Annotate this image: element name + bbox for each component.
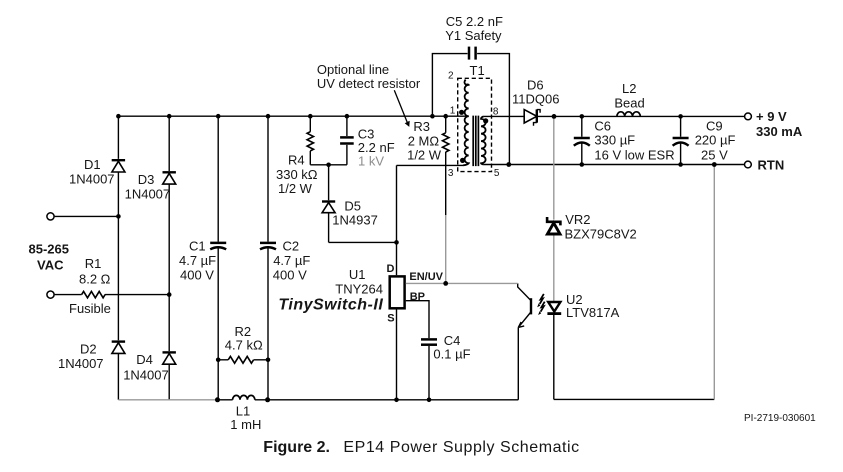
capacitor C3 xyxy=(340,137,354,143)
svg-text:1/2 W: 1/2 W xyxy=(278,181,313,196)
label D3 xyxy=(125,172,171,202)
svg-text:U1: U1 xyxy=(349,267,366,282)
svg-text:TinySwitch-II: TinySwitch-II xyxy=(278,297,383,314)
svg-text:TNY264: TNY264 xyxy=(335,282,383,297)
svg-text:VAC: VAC xyxy=(37,258,64,273)
diode D1 xyxy=(112,160,125,172)
wire U2 LED cathode to bottom xyxy=(553,314,555,399)
label C3 xyxy=(358,127,395,169)
svg-text:4.7 µF: 4.7 µF xyxy=(179,253,216,268)
svg-text:D6: D6 xyxy=(527,78,544,93)
diode D5 xyxy=(322,202,335,213)
diode D4 xyxy=(163,352,176,364)
svg-text:PI-2719-030601: PI-2719-030601 xyxy=(744,413,816,424)
svg-text:C2: C2 xyxy=(283,239,300,254)
transformer T1 core xyxy=(473,116,478,167)
wire C6 branch xyxy=(581,116,583,164)
wire C5 right leg xyxy=(477,54,509,165)
wire AC line 2 xyxy=(55,294,170,296)
capacitor C1 xyxy=(210,243,226,249)
svg-text:1N4007: 1N4007 xyxy=(58,356,104,371)
wire primary return pin 3 xyxy=(397,164,464,166)
wire drain xyxy=(396,165,398,275)
svg-text:D5: D5 xyxy=(344,199,361,214)
svg-text:330 mA: 330 mA xyxy=(756,124,803,139)
svg-text:R1: R1 xyxy=(85,256,102,271)
svg-text:3: 3 xyxy=(448,168,454,179)
svg-text:VR2: VR2 xyxy=(565,212,590,227)
label C2 xyxy=(273,239,311,283)
zener diode VR2 xyxy=(547,217,560,234)
svg-text:16 V low ESR: 16 V low ESR xyxy=(594,148,674,163)
svg-text:RTN: RTN xyxy=(758,158,785,173)
resistor R3 xyxy=(443,133,449,152)
label R2 xyxy=(225,324,263,353)
terminal AC input bottom xyxy=(47,291,54,298)
optocoupler U2 LED xyxy=(547,302,561,314)
terminal AC input top xyxy=(47,213,54,220)
wire C3 branch xyxy=(346,116,348,165)
svg-text:220 µF: 220 µF xyxy=(695,133,736,148)
wire S pin xyxy=(396,310,398,400)
wire R4 branch xyxy=(309,116,311,165)
svg-text:85-265: 85-265 xyxy=(29,242,69,257)
svg-text:C6: C6 xyxy=(594,119,611,134)
wire EN/UV gray xyxy=(406,282,518,284)
resistor R1 xyxy=(82,291,106,297)
svg-text:BZX79C8V2: BZX79C8V2 xyxy=(565,227,637,242)
capacitor C2 xyxy=(260,243,276,249)
wire bottom rail xyxy=(218,327,519,399)
wire bridge right vertical xyxy=(168,116,170,400)
svg-text:0.1 µF: 0.1 µF xyxy=(433,347,470,362)
svg-text:2: 2 xyxy=(448,71,454,82)
svg-text:2 MΩ: 2 MΩ xyxy=(408,134,440,149)
wire C9 branch xyxy=(680,116,682,164)
wire bottom rail gray segment xyxy=(118,399,217,401)
diode D3 xyxy=(163,172,176,184)
junction dot AC1 xyxy=(116,214,121,219)
wire R3 branch xyxy=(445,116,447,215)
svg-text:D3: D3 xyxy=(138,172,155,187)
label D6 xyxy=(512,78,559,107)
capacitor C6 xyxy=(574,138,590,146)
wire R3 lower gray xyxy=(445,215,447,283)
inductor L1 xyxy=(233,395,255,399)
junction dots R2 xyxy=(216,358,270,363)
wire top DC bus xyxy=(118,115,468,117)
svg-text:1: 1 xyxy=(450,106,456,117)
wire VR2 branch gray vertical xyxy=(553,116,555,301)
label 85-265 VAC xyxy=(29,242,69,273)
wire feedback bottom xyxy=(554,398,715,400)
svg-text:D1: D1 xyxy=(84,157,101,172)
wire C4 bottom xyxy=(428,346,430,400)
svg-text:11DQ06: 11DQ06 xyxy=(512,92,559,107)
svg-text:1N4007: 1N4007 xyxy=(123,368,169,383)
label D5 xyxy=(332,199,378,228)
wire D5 to drain xyxy=(329,241,397,243)
svg-text:1 kV: 1 kV xyxy=(358,154,384,169)
transformer T1 primary winding xyxy=(463,80,469,166)
label R3 xyxy=(407,119,442,163)
inductor L2 xyxy=(617,112,640,117)
wire RTN rail xyxy=(484,164,745,166)
svg-text:5: 5 xyxy=(494,168,500,179)
svg-text:C9: C9 xyxy=(706,119,723,134)
annotation arrow optional UV resistor xyxy=(394,90,409,127)
svg-text:Fusible: Fusible xyxy=(69,301,111,316)
label C9 xyxy=(695,119,736,163)
optocoupler U2 phototransistor xyxy=(518,283,531,327)
label R4 xyxy=(276,153,318,197)
IC U1 TNY264 box xyxy=(390,276,405,308)
transformer polarity dot primary bottom xyxy=(460,158,465,163)
svg-text:400 V: 400 V xyxy=(180,268,214,283)
resistor R2 xyxy=(218,356,268,363)
wire C5 left leg xyxy=(432,54,467,117)
label U2 xyxy=(566,292,620,320)
label L1 xyxy=(230,404,261,433)
junction dots top bus xyxy=(116,114,448,119)
label D2 xyxy=(58,342,104,372)
svg-text:Y1 Safety: Y1 Safety xyxy=(445,28,502,43)
wire feedback right gray xyxy=(713,165,715,400)
junction dots RTN rail xyxy=(506,162,716,167)
svg-text:1/2 W: 1/2 W xyxy=(407,148,442,163)
transformer polarity dot secondary xyxy=(483,118,488,123)
svg-text:1 mH: 1 mH xyxy=(230,417,261,432)
wire C1 branch xyxy=(217,116,219,400)
svg-text:C1: C1 xyxy=(189,239,206,254)
junction dots S and C4 on bottom rail xyxy=(394,398,431,403)
svg-text:Optional line: Optional line xyxy=(317,62,389,77)
capacitor C4 xyxy=(421,339,437,344)
label D1 xyxy=(69,157,115,187)
label +9V output xyxy=(756,109,803,139)
svg-text:S: S xyxy=(387,313,394,325)
svg-text:LTV817A: LTV817A xyxy=(566,305,620,320)
svg-text:EN/UV: EN/UV xyxy=(409,271,443,283)
terminal +9V output xyxy=(745,113,752,120)
svg-text:400 V: 400 V xyxy=(273,268,307,283)
terminal RTN output xyxy=(745,161,752,168)
junction dots +9V rail xyxy=(552,114,683,119)
svg-text:330 kΩ: 330 kΩ xyxy=(276,167,318,182)
label C1 xyxy=(179,239,216,283)
junction dot drain xyxy=(394,240,399,245)
svg-text:8.2 Ω: 8.2 Ω xyxy=(79,272,111,287)
svg-text:1N4007: 1N4007 xyxy=(125,187,171,202)
label U1 xyxy=(335,267,383,297)
capacitor C9 xyxy=(673,138,689,146)
wire AC line 1 xyxy=(55,215,119,217)
label VR2 xyxy=(565,212,637,242)
svg-text:+ 9 V: + 9 V xyxy=(756,109,787,124)
svg-text:Bead: Bead xyxy=(614,96,644,111)
resistor R4 xyxy=(307,132,313,151)
junction dot clamp node xyxy=(326,163,331,168)
junction dots L1 bottom rail xyxy=(215,397,270,402)
label optional line UV xyxy=(317,62,421,91)
label L2 xyxy=(614,81,644,111)
svg-text:R4: R4 xyxy=(288,153,305,168)
svg-text:1N4007: 1N4007 xyxy=(69,172,115,187)
svg-text:UV detect resistor: UV detect resistor xyxy=(317,76,421,91)
wire bridge left vertical xyxy=(117,116,119,400)
caption Figure 2 xyxy=(263,439,579,456)
junction dot AC2 xyxy=(167,292,172,297)
junction dot EN/UV node xyxy=(443,281,448,286)
label C4 xyxy=(433,333,470,362)
wire BP pin xyxy=(406,301,429,338)
wire clamp node xyxy=(310,164,347,166)
svg-text:330 µF: 330 µF xyxy=(594,133,635,148)
transformer T1 secondary winding xyxy=(481,116,486,164)
wire output +9V rail xyxy=(484,115,745,117)
diode D2 xyxy=(112,342,125,354)
svg-text:4.7 kΩ: 4.7 kΩ xyxy=(225,338,263,353)
svg-text:D2: D2 xyxy=(80,342,97,357)
label C5 xyxy=(445,14,503,43)
transformer T1 dashed box xyxy=(458,78,492,171)
svg-text:1N4937: 1N4937 xyxy=(332,213,378,228)
diode D6 xyxy=(524,109,540,125)
capacitor C5 xyxy=(469,47,476,60)
svg-text:D4: D4 xyxy=(136,352,153,367)
svg-text:BP: BP xyxy=(410,291,425,303)
svg-text:D: D xyxy=(387,263,395,275)
label C6 xyxy=(594,119,674,163)
svg-text:R3: R3 xyxy=(413,119,430,134)
wire C2 branch xyxy=(267,116,269,400)
svg-text:8: 8 xyxy=(493,107,499,118)
svg-text:Figure 2.: Figure 2. xyxy=(263,439,330,456)
label R1 xyxy=(69,256,111,316)
svg-text:C5 2.2 nF: C5 2.2 nF xyxy=(446,14,503,29)
svg-text:L2: L2 xyxy=(622,81,636,96)
svg-text:T1: T1 xyxy=(470,63,485,78)
transformer polarity dot primary top xyxy=(459,110,464,115)
label D4 xyxy=(123,352,169,383)
wire D5 branch xyxy=(328,165,330,243)
svg-text:4.7 µF: 4.7 µF xyxy=(273,253,310,268)
svg-text:EP14 Power Supply Schematic: EP14 Power Supply Schematic xyxy=(343,439,579,456)
optocoupler U2 light arrows xyxy=(537,294,545,315)
svg-text:25 V: 25 V xyxy=(701,148,728,163)
